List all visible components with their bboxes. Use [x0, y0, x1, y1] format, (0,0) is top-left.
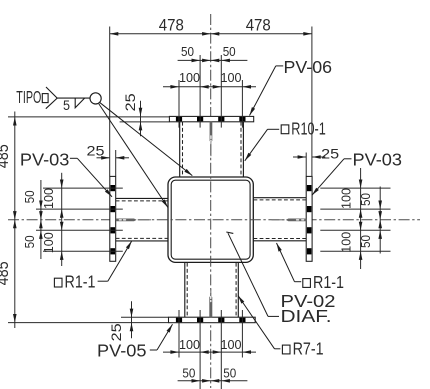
drift pin top beam — [210, 122, 213, 156]
dim ext row right bolt1 — [320, 187, 390, 189]
beam right hidden line bottom — [254, 238, 307, 240]
svg-text:50: 50 — [358, 193, 373, 206]
dim text 25 top plate — [122, 93, 138, 111]
dim text 100 bottom-right — [221, 337, 242, 352]
svg-text:50: 50 — [22, 190, 37, 203]
bolt top plate 4 — [239, 117, 245, 121]
svg-text:25: 25 — [122, 93, 138, 111]
dim text 478 right — [246, 15, 271, 34]
dim line 50-50 bottom — [178, 379, 248, 383]
bolt left plate 2 — [111, 206, 116, 212]
bolt right plate 1 — [307, 185, 312, 191]
dim text 25 left plate — [87, 142, 105, 158]
dim line 100-100 left — [60, 173, 64, 266]
bolt bottom plate 3 — [218, 318, 224, 323]
svg-text:100: 100 — [41, 232, 56, 253]
dim ext line top bolt inner-left — [199, 55, 201, 128]
leader R1-1 left — [98, 241, 132, 281]
beam right hidden line top — [254, 199, 307, 201]
label R10-1 — [291, 118, 326, 138]
dim line 485 — [13, 112, 17, 329]
leader PV-05 — [150, 324, 173, 350]
dim ext line top bolt inner-right — [220, 55, 222, 128]
column inner wall — [171, 180, 250, 259]
beam PV-06 hidden line right — [240, 122, 242, 177]
beam PV-05 hidden line left — [186, 263, 188, 317]
weld leader to top beam — [100, 102, 193, 175]
dim 478 extension line left — [109, 27, 111, 177]
dim line 50-50 right — [378, 187, 382, 254]
dim ext row left bolt3 — [36, 229, 123, 231]
label R1-1 left — [65, 272, 96, 292]
dim ext line bottom bolt outer-left — [178, 310, 180, 358]
svg-text:100: 100 — [221, 337, 242, 352]
beam left bottom edge — [116, 240, 168, 242]
dim text 478 left — [159, 15, 184, 34]
weld reference line — [57, 97, 90, 99]
dim line 100-100 bottom — [163, 350, 256, 354]
svg-text:25: 25 — [321, 145, 339, 161]
dim ext row top plate face — [8, 116, 169, 118]
dim 25 left plate arrows — [97, 156, 130, 160]
svg-text:R10-1: R10-1 — [291, 118, 326, 138]
svg-text:50: 50 — [182, 365, 195, 380]
label PV-03 right — [353, 150, 403, 170]
dim line 50-50 left — [39, 180, 43, 259]
dim text 100 left-lower — [41, 232, 56, 253]
svg-text:50: 50 — [223, 365, 236, 380]
drift pin right beam — [272, 219, 307, 222]
dim ext row right bolt3 — [320, 229, 390, 231]
label PV-03 left — [20, 149, 70, 169]
leader PV-03 right — [312, 159, 352, 196]
dim text 100 top-left — [179, 70, 200, 85]
svg-text:100: 100 — [41, 188, 56, 209]
leader R7-1 — [238, 296, 280, 349]
dim ext line bottom bolt inner-left — [199, 310, 201, 389]
label TIPO — [16, 87, 41, 107]
bolt top plate 1 — [176, 117, 182, 121]
bolt left plate 1 — [111, 185, 116, 191]
dim ext row left bolt4 — [43, 250, 123, 252]
end plate left PV-03 connection — [110, 176, 116, 261]
end plate top PV-06 connection — [169, 116, 253, 121]
dim 25 bottom plate line — [130, 301, 134, 338]
beam left hidden line bottom — [116, 237, 168, 239]
svg-text:R1-1: R1-1 — [313, 272, 344, 292]
dim 25 right plate stub left — [305, 153, 307, 177]
weld symbol chevron — [46, 87, 57, 109]
dim ext row bottom plate face — [8, 322, 169, 324]
bolt top plate 2 — [197, 117, 203, 121]
leader DIAF to diaphragm — [226, 232, 279, 316]
bolt bottom plate 4 — [239, 318, 245, 323]
dim text 485 upper — [0, 144, 12, 168]
dim text 50 right-upper — [358, 193, 373, 206]
svg-text:25: 25 — [108, 323, 124, 341]
dim text 50 bottom-right — [223, 365, 236, 380]
dim text 485 lower — [0, 261, 12, 285]
dim text 100 top-right — [221, 70, 242, 85]
beam PV-06 top left edge — [179, 122, 181, 177]
dim text 25 right plate — [321, 145, 339, 161]
leader PV-06 — [250, 66, 284, 116]
dim line 100-100 right — [359, 168, 363, 269]
svg-text:485: 485 — [0, 144, 12, 168]
svg-text:PV-05: PV-05 — [97, 340, 147, 360]
svg-text:PV-03: PV-03 — [20, 149, 70, 169]
svg-text:TIPO: TIPO — [16, 87, 41, 107]
leader R1-1 right — [277, 243, 302, 282]
dim ext row right bolt4 — [320, 250, 390, 252]
svg-text:50: 50 — [181, 44, 194, 59]
label R7-1 — [293, 338, 324, 358]
label R1-1 right box — [303, 279, 311, 288]
svg-text:485: 485 — [0, 261, 12, 285]
label DIAF — [281, 306, 332, 326]
column HSS 400x400 outer wall — [168, 177, 253, 262]
bolt bottom plate 2 — [197, 318, 203, 323]
svg-text:R7-1: R7-1 — [293, 338, 324, 358]
svg-text:100: 100 — [339, 232, 354, 253]
label PV-05 — [97, 340, 147, 360]
dim ext row left bolt1 — [43, 187, 123, 189]
svg-text:50: 50 — [358, 235, 373, 248]
svg-text:5: 5 — [63, 97, 70, 113]
dim text 50 bottom-left — [182, 365, 195, 380]
dim ext line top bolt outer-left — [178, 80, 180, 128]
dim text 50 top-right — [223, 44, 236, 59]
beam PV-05 hidden line right — [235, 263, 237, 317]
weld leader to column left wall — [99, 104, 168, 208]
svg-text:25: 25 — [87, 142, 105, 158]
dim 25 bottom plate ext row — [121, 316, 169, 318]
weld all-around circle — [90, 93, 101, 104]
dim ext line top bolt outer-right — [241, 80, 243, 128]
svg-text:50: 50 — [22, 235, 37, 248]
dim text 50 left-upper — [22, 190, 37, 203]
beam PV-05 bottom right edge — [237, 263, 239, 317]
dim text 100 right-upper — [339, 188, 354, 209]
label PV-06 — [284, 57, 333, 77]
label R7-1 box — [282, 345, 290, 354]
dim 25 top plate ext row — [120, 121, 170, 123]
fillet weld triangle — [75, 98, 84, 108]
end plate right PV-03 connection — [306, 176, 312, 261]
svg-text:50: 50 — [223, 44, 236, 59]
dim 25 top plate line — [139, 101, 143, 137]
dim line 100-100 top — [163, 85, 256, 89]
beam left top edge — [116, 197, 168, 199]
dim text 50 left-lower — [22, 235, 37, 248]
svg-text:PV-03: PV-03 — [353, 150, 403, 170]
dim text 100 bottom-left — [179, 337, 200, 352]
bolt bottom plate 1 — [176, 318, 182, 323]
bolt right plate 2 — [307, 206, 312, 212]
beam left hidden line top — [116, 200, 168, 202]
beam right top edge — [254, 197, 307, 199]
dim text 25 bottom plate — [108, 323, 124, 341]
drift pin left beam — [116, 219, 151, 222]
svg-text:100: 100 — [179, 337, 200, 352]
beam PV-05 bottom left edge — [184, 263, 186, 317]
dim text 100 left-upper — [41, 188, 56, 209]
svg-text:DIAF.: DIAF. — [281, 306, 332, 326]
dim text 50 right-lower — [358, 235, 373, 248]
dim line 478 — [110, 32, 312, 36]
end plate bottom PV-05 connection — [169, 317, 256, 323]
label R10-1 box — [281, 125, 289, 134]
beam PV-06 hidden line left — [182, 122, 184, 177]
beam PV-06 top right edge — [242, 122, 244, 177]
dim 478 extension line right — [311, 27, 313, 177]
dim line 50-50 top — [178, 59, 248, 63]
dim ext line bottom bolt outer-right — [241, 310, 243, 358]
vertical centerline axis — [210, 14, 212, 388]
dim ext row left bolt2 — [36, 208, 123, 210]
svg-text:100: 100 — [339, 188, 354, 209]
leader R10-1 — [245, 129, 279, 161]
svg-text:100: 100 — [179, 70, 200, 85]
bolt top plate 3 — [218, 117, 224, 121]
svg-text:478: 478 — [159, 15, 184, 34]
bolt right plate 3 — [307, 227, 312, 233]
svg-text:R1-1: R1-1 — [65, 272, 96, 292]
bolt right plate 4 — [307, 248, 312, 254]
dim 25 right plate arrows — [293, 155, 325, 159]
weld size text 5 — [63, 97, 70, 113]
dim ext line bottom bolt inner-right — [220, 310, 222, 389]
horizontal centerline axis — [8, 219, 420, 221]
label R1-1 right — [313, 272, 344, 292]
svg-text:478: 478 — [246, 15, 271, 34]
beam right bottom edge — [254, 240, 307, 242]
label PV-02 — [281, 291, 336, 311]
bolt left plate 4 — [111, 248, 116, 254]
svg-text:100: 100 — [221, 70, 242, 85]
label R1-1 left box — [54, 278, 62, 287]
bolt left plate 3 — [111, 227, 116, 233]
dim 25 left plate stub — [115, 150, 117, 176]
svg-text:PV-06: PV-06 — [284, 57, 333, 77]
dim text 100 right-lower — [339, 232, 354, 253]
dim text 50 top-left — [181, 44, 194, 59]
leader PV-03 left — [70, 158, 112, 197]
dim ext row right bolt2 — [320, 208, 390, 210]
drift pin bottom beam — [209, 289, 212, 318]
TIPO box symbol — [42, 94, 48, 103]
